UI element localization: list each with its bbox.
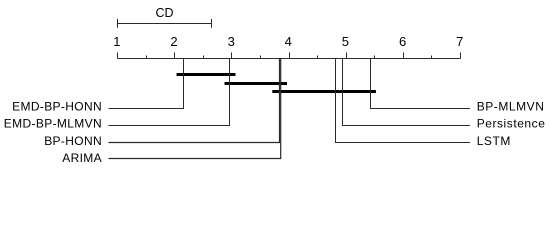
leader line EMD-BP-MLMVN — [109, 59, 230, 126]
leader line LSTM — [336, 59, 471, 143]
svg-text:7: 7 — [456, 34, 463, 49]
leader line BP-MLMVN — [371, 59, 471, 109]
CD interval bracket — [118, 19, 212, 28]
svg-text:5: 5 — [342, 34, 349, 49]
svg-text:1: 1 — [113, 34, 120, 49]
clique bar 1 (EMD-BP-HONN..EMD-BP-MLMVN) — [177, 73, 236, 76]
svg-text:4: 4 — [285, 34, 292, 49]
svg-text:BP-MLMVN: BP-MLMVN — [477, 100, 545, 114]
svg-text:EMD-BP-HONN: EMD-BP-HONN — [12, 100, 102, 114]
leader line EMD-BP-HONN — [109, 59, 184, 109]
major ticks — [118, 53, 461, 59]
leader line ARIMA — [109, 59, 281, 159]
leader line BP-HONN — [109, 59, 280, 143]
minor ticks — [147, 56, 432, 59]
svg-text:2: 2 — [170, 34, 177, 49]
svg-text:Persistence: Persistence — [477, 117, 546, 131]
clique bar 3 (BP-HONN..BP-MLMVN) — [272, 90, 376, 93]
svg-text:6: 6 — [399, 34, 406, 49]
leader line Persistence — [343, 59, 471, 126]
svg-text:EMD-BP-MLMVN: EMD-BP-MLMVN — [4, 117, 102, 131]
clique bar 2 (EMD-BP-MLMVN..ARIMA) — [225, 82, 288, 85]
svg-text:ARIMA: ARIMA — [62, 151, 102, 165]
svg-text:LSTM: LSTM — [477, 134, 511, 148]
axis line — [118, 58, 461, 60]
svg-text:3: 3 — [228, 34, 235, 49]
svg-text:BP-HONN: BP-HONN — [44, 134, 102, 148]
svg-text:CD: CD — [155, 6, 173, 20]
